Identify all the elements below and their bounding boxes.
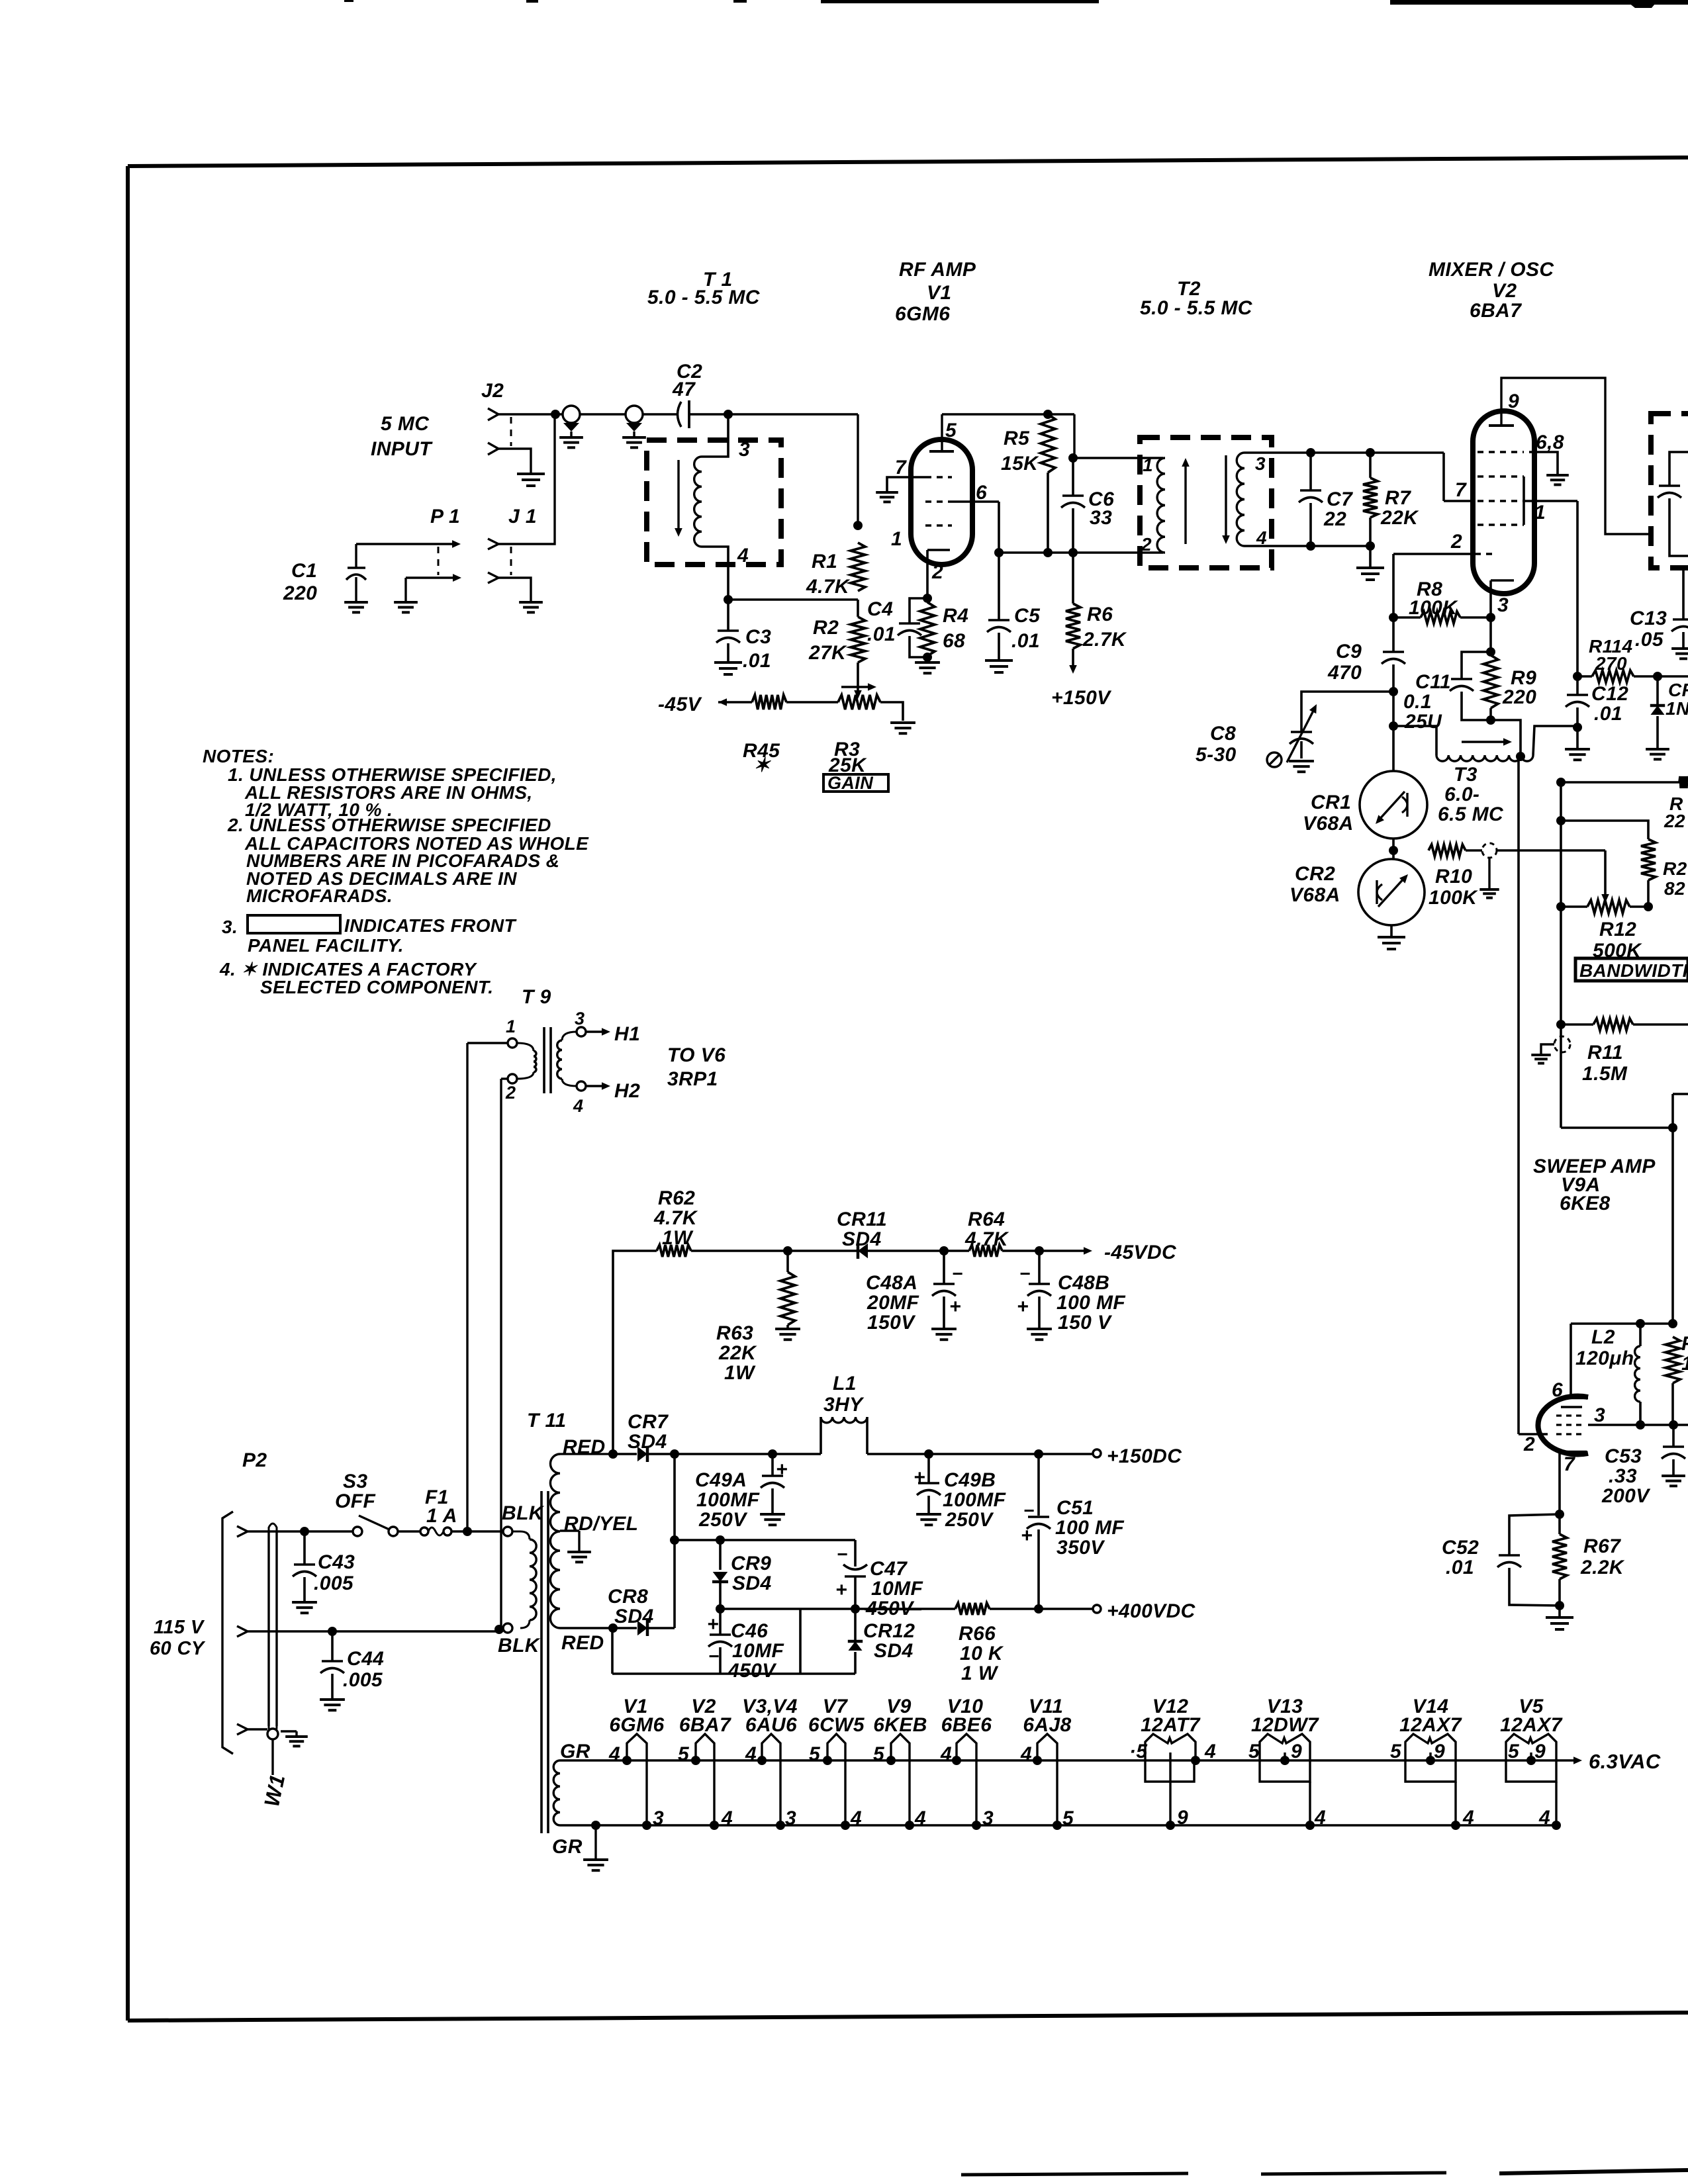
node rect branch	[670, 1535, 679, 1545]
pin 4 label V1	[608, 1743, 620, 1765]
svg-text:V68A: V68A	[1289, 884, 1340, 906]
svg-text:12DW7: 12DW7	[1251, 1714, 1319, 1736]
svg-text:5: 5	[809, 1743, 821, 1765]
svg-text:R2: R2	[1663, 858, 1687, 879]
fuse F1	[420, 1486, 457, 1535]
resistor R7	[1363, 453, 1419, 546]
svg-text:1W: 1W	[724, 1362, 756, 1384]
svg-text:22: 22	[1323, 508, 1346, 530]
node CR9 top	[716, 1535, 725, 1545]
wire V1 pin6	[952, 502, 999, 620]
node CR9 bottom	[716, 1604, 725, 1614]
svg-text:C1: C1	[291, 560, 317, 582]
varicap CR2	[1289, 838, 1425, 925]
arrow T3 tuning	[1462, 738, 1512, 746]
label TO V6 3RP1	[667, 1044, 726, 1090]
svg-text:12AX7: 12AX7	[1500, 1714, 1563, 1736]
pin 6 label V9A	[1552, 1379, 1563, 1401]
svg-text:5: 5	[1390, 1741, 1402, 1762]
ground cord shield	[281, 1731, 308, 1746]
resistor R67	[1552, 1514, 1625, 1606]
svg-text:P2: P2	[242, 1449, 267, 1471]
capacitor C51	[1021, 1454, 1124, 1609]
svg-text:4: 4	[745, 1743, 757, 1765]
node heater tap	[463, 1527, 472, 1536]
wire L2 top rail	[1571, 1324, 1673, 1398]
pin 1 label T9	[506, 1017, 516, 1036]
svg-text:.005: .005	[314, 1572, 354, 1594]
svg-text:12AT7: 12AT7	[1141, 1714, 1201, 1736]
svg-text:6AJ8: 6AJ8	[1023, 1714, 1071, 1736]
svg-text:7: 7	[895, 457, 907, 478]
transformer T11 label	[527, 1410, 566, 1432]
node C9 bottom	[1389, 687, 1398, 696]
transformer T11 heater winding	[553, 1760, 560, 1825]
pin 6,8 label V2	[1536, 432, 1564, 453]
node R7 top	[1366, 448, 1375, 457]
node pin3 C53	[1669, 1420, 1678, 1430]
node input junction	[551, 410, 560, 419]
svg-text:R64: R64	[968, 1208, 1005, 1230]
tube V1 grids	[925, 477, 952, 525]
tube V11 heater	[1033, 1734, 1062, 1830]
svg-text:1: 1	[506, 1017, 516, 1036]
svg-text:NOTES:: NOTES:	[203, 746, 274, 766]
capacitor C52	[1442, 1514, 1560, 1606]
svg-text:4: 4	[1462, 1807, 1474, 1829]
transformer T2 arrows	[1182, 455, 1230, 544]
svg-text:CR1: CR1	[1311, 792, 1351, 813]
svg-text:+: +	[835, 1579, 847, 1601]
svg-text:2: 2	[1450, 531, 1462, 553]
transformer T1 winding	[694, 414, 728, 600]
wire cathode V2 down	[1489, 617, 1492, 652]
pin 2 label V2	[1450, 531, 1462, 553]
svg-text:3.: 3.	[222, 917, 238, 937]
svg-text:CR8: CR8	[608, 1586, 648, 1608]
svg-text:+: +	[707, 1614, 719, 1635]
node C43 top	[300, 1527, 309, 1536]
wire R45 to R3	[786, 701, 838, 704]
label MIXER/OSC V2 6BA7	[1429, 259, 1554, 322]
wire V9A pin3 rail	[1588, 1424, 1688, 1426]
switch S3	[335, 1471, 398, 1536]
svg-text:20MF: 20MF	[867, 1292, 919, 1314]
svg-text:CR9: CR9	[731, 1553, 771, 1574]
node C12 bottom	[1573, 723, 1582, 732]
transformer T2 shield box	[1140, 437, 1272, 568]
connector J2	[481, 380, 511, 455]
pin 4 label V3,V4	[745, 1743, 757, 1765]
svg-text:5: 5	[1248, 1741, 1260, 1762]
svg-text:C52: C52	[1442, 1537, 1479, 1559]
pin 7 label V1	[895, 457, 907, 478]
wire AC line 3	[248, 1728, 267, 1730]
svg-text:MIXER / OSC: MIXER / OSC	[1429, 259, 1554, 281]
node R68 top	[1668, 1319, 1677, 1328]
node R12 left	[1556, 902, 1566, 911]
capacitor C53	[1601, 1425, 1685, 1507]
resistor R21 cut	[1641, 839, 1687, 907]
wire V2 pin2	[1393, 554, 1475, 617]
svg-text:−: −	[837, 1544, 848, 1565]
connector P1 arrows	[356, 540, 461, 601]
pin 4 label V9	[914, 1807, 926, 1829]
label GR top	[560, 1741, 590, 1762]
capacitor C2	[672, 361, 702, 428]
pin 5 label V1	[945, 420, 957, 441]
svg-text:J2: J2	[481, 380, 504, 402]
notes text 1-2	[203, 746, 589, 906]
node T3 tap	[1516, 752, 1525, 761]
svg-text:RF AMP: RF AMP	[899, 259, 976, 281]
svg-text:.33: .33	[1609, 1465, 1637, 1487]
svg-text:100 MF: 100 MF	[1056, 1292, 1125, 1314]
svg-text:100MF: 100MF	[696, 1489, 760, 1511]
wire H1	[586, 1023, 640, 1045]
terminal BLK top	[502, 1502, 545, 1536]
svg-text:SD4: SD4	[874, 1640, 914, 1662]
svg-text:+: +	[776, 1459, 788, 1480]
wire main input line	[498, 414, 858, 525]
svg-text:+150DC: +150DC	[1107, 1445, 1182, 1467]
svg-text:SD4: SD4	[842, 1228, 882, 1250]
label 5 MC INPUT	[371, 413, 433, 460]
svg-text:9: 9	[1177, 1807, 1188, 1829]
svg-text:C3: C3	[745, 626, 771, 648]
svg-text:100 MF: 100 MF	[1055, 1517, 1124, 1539]
svg-text:6BA7: 6BA7	[1470, 300, 1522, 322]
ground V9A cathode	[1546, 1606, 1573, 1629]
wire R9 to T3 tap	[1491, 720, 1521, 755]
diode CR7	[613, 1411, 675, 1462]
wire rect bottom loop	[612, 1628, 855, 1674]
node pin3 L2	[1636, 1420, 1645, 1430]
node C48B top	[1035, 1246, 1044, 1255]
svg-text:2. UNLESS OTHERWISE SPECIFIED: 2. UNLESS OTHERWISE SPECIFIED	[227, 815, 551, 835]
svg-text:C49A: C49A	[695, 1469, 747, 1491]
transformer T9 core	[544, 1027, 551, 1093]
pin 9 label V12	[1177, 1807, 1188, 1829]
svg-text:C11: C11	[1415, 671, 1451, 693]
resistor R62	[653, 1187, 788, 1257]
capacitor C44	[320, 1631, 384, 1698]
resistor R13 cut	[1664, 776, 1688, 831]
svg-text:9: 9	[1291, 1741, 1302, 1762]
svg-text:INPUT: INPUT	[371, 438, 433, 460]
svg-text:·5: ·5	[1129, 1741, 1148, 1762]
svg-text:C47: C47	[870, 1558, 908, 1580]
node R4 bottom	[923, 653, 932, 662]
svg-text:.01: .01	[867, 623, 896, 645]
svg-text:1N: 1N	[1665, 698, 1688, 719]
feedthrough R10	[1479, 843, 1499, 898]
node R7 bottom	[1366, 541, 1375, 551]
pin 3 label V1	[653, 1807, 664, 1829]
node C51 top	[1034, 1449, 1043, 1459]
svg-text:4: 4	[914, 1807, 926, 1829]
svg-text:3: 3	[785, 1807, 796, 1829]
svg-text:470: 470	[1327, 662, 1362, 684]
ground C49B	[916, 1514, 941, 1525]
node L2 top	[1636, 1319, 1645, 1328]
svg-text:9: 9	[1434, 1741, 1445, 1762]
svg-text:4.7K: 4.7K	[653, 1207, 698, 1229]
oscillator tank capacitor	[1658, 452, 1688, 556]
svg-text:1: 1	[1143, 455, 1153, 475]
svg-text:+400VDC: +400VDC	[1107, 1600, 1196, 1622]
svg-text:GR: GR	[560, 1741, 590, 1762]
svg-text:+: +	[1017, 1296, 1029, 1318]
capacitor C6	[1061, 458, 1114, 553]
svg-text:6AU6: 6AU6	[745, 1714, 797, 1736]
resistor R63	[716, 1251, 795, 1384]
svg-text:4: 4	[608, 1743, 620, 1765]
svg-text:220: 220	[1502, 686, 1536, 708]
svg-text:R62: R62	[658, 1187, 695, 1209]
pin 4 label V12	[1204, 1741, 1216, 1762]
svg-text:C13: C13	[1630, 608, 1667, 629]
svg-text:1 W: 1 W	[961, 1662, 999, 1684]
node R8 right	[1486, 613, 1495, 622]
capacitor C49B	[914, 1454, 1006, 1531]
node T9 line2	[494, 1625, 504, 1634]
svg-text:10MF: 10MF	[732, 1640, 784, 1662]
capacitor C46	[707, 1609, 784, 1682]
wire R21 feed	[1561, 821, 1648, 839]
resistor R6	[1066, 553, 1127, 674]
diode CR9	[712, 1540, 772, 1609]
wire heater top	[560, 1759, 1573, 1762]
node pin6 rail junction	[994, 548, 1004, 557]
resistor R114	[1577, 636, 1688, 682]
inductor L1	[675, 1373, 1094, 1454]
node R11 left	[1556, 1020, 1566, 1029]
label V13 12DW7	[1251, 1696, 1319, 1736]
pin 4 label V5	[1538, 1807, 1550, 1829]
svg-text:6.3VAC: 6.3VAC	[1589, 1750, 1661, 1773]
pin 2 label V1	[931, 561, 943, 583]
tube V9 heater	[886, 1734, 914, 1830]
wire T9 pin1 down	[467, 1043, 508, 1531]
wire C8 feed	[1301, 692, 1393, 732]
transformer T11 core	[541, 1491, 548, 1833]
tube V2 grids	[1475, 452, 1524, 554]
svg-text:+150V: +150V	[1051, 687, 1112, 709]
svg-text:R66: R66	[959, 1623, 996, 1645]
pin 3 label V2	[1497, 594, 1509, 616]
diode CR3	[1650, 676, 1688, 748]
pin 5 label V9	[873, 1743, 885, 1765]
svg-text:1.: 1.	[1681, 1353, 1688, 1375]
wire heater bottom	[560, 1824, 1556, 1827]
pin 3 label T9	[575, 1009, 585, 1028]
label J1	[508, 506, 537, 527]
pin 3 label T1	[739, 439, 750, 461]
svg-text:.05: .05	[1635, 629, 1664, 651]
pin 3 label V10	[982, 1807, 994, 1829]
ground C1	[344, 602, 368, 612]
inductor L2	[1575, 1324, 1640, 1425]
svg-text:C49B: C49B	[944, 1469, 996, 1491]
ground CR3	[1646, 749, 1669, 759]
svg-text:.01: .01	[1011, 630, 1040, 652]
label T2	[1140, 278, 1253, 319]
svg-text:10 K: 10 K	[960, 1643, 1004, 1664]
pin 5 label V11	[1062, 1807, 1074, 1829]
ground C49A	[760, 1514, 785, 1525]
tube V9A cathode	[1558, 1452, 1587, 1514]
svg-text:BLK: BLK	[498, 1635, 541, 1657]
diode CR11	[788, 1208, 944, 1259]
pin 2 label T9	[505, 1083, 516, 1103]
svg-text:CR7: CR7	[628, 1411, 669, 1433]
svg-text:150V: 150V	[867, 1312, 916, 1334]
capacitor C9	[1327, 617, 1405, 692]
svg-text:+: +	[949, 1296, 961, 1318]
svg-text:7: 7	[1564, 1453, 1575, 1475]
label V3,V4 6AU6	[742, 1696, 798, 1736]
wire -45VDC out	[1039, 1242, 1177, 1263]
svg-text:6.0-: 6.0-	[1444, 784, 1479, 805]
svg-text:3: 3	[982, 1807, 994, 1829]
capacitor C47	[835, 1544, 923, 1619]
svg-text:C51: C51	[1056, 1497, 1094, 1519]
svg-text:H1: H1	[614, 1023, 640, 1045]
tube V1 heater	[622, 1734, 651, 1830]
label -45V	[658, 694, 703, 715]
wire V2 pins6,8 to ground	[1529, 452, 1558, 474]
svg-text:350V: 350V	[1056, 1537, 1105, 1559]
pin 5 label V2	[678, 1743, 690, 1765]
svg-text:100K: 100K	[1409, 597, 1458, 619]
svg-text:82: 82	[1664, 878, 1685, 899]
svg-text:✶: ✶	[753, 754, 771, 776]
node C49A top	[768, 1449, 777, 1459]
ground V1 pin7	[876, 492, 898, 502]
wire AC line 2	[248, 1628, 503, 1631]
node R4 top	[923, 594, 932, 603]
svg-text:27K: 27K	[808, 642, 847, 664]
svg-text:270: 270	[1595, 653, 1627, 674]
node R8 left	[1389, 613, 1398, 622]
node R67 bottom	[1555, 1601, 1564, 1610]
pin 4 label V7	[850, 1807, 862, 1829]
svg-text:L2: L2	[1591, 1326, 1615, 1348]
tube V2 heater	[691, 1734, 719, 1830]
svg-text:R2: R2	[813, 617, 839, 639]
tap RD/YEL	[560, 1513, 638, 1551]
svg-text:15K: 15K	[1001, 453, 1039, 475]
wire J1 pin1	[498, 414, 555, 544]
feedthrough R11	[1531, 1036, 1570, 1064]
label T3	[1438, 764, 1504, 825]
svg-text:47: 47	[672, 379, 696, 400]
svg-text:BANDWIDTH: BANDWIDTH	[1579, 960, 1688, 981]
ground GR	[583, 1825, 608, 1870]
svg-text:C48B: C48B	[1058, 1272, 1109, 1294]
svg-text:120μh: 120μh	[1575, 1347, 1634, 1369]
capacitor C1	[283, 560, 366, 604]
pin 7 label V9A	[1564, 1453, 1575, 1475]
pin 4 label V13	[1314, 1807, 1326, 1829]
ground C53	[1662, 1476, 1685, 1486]
svg-text:R4: R4	[943, 605, 968, 627]
tube V3,V4 heater	[757, 1734, 785, 1830]
svg-text:6,8: 6,8	[1536, 432, 1564, 453]
svg-text:P 1: P 1	[430, 506, 460, 527]
transformer T9 secondary	[557, 1027, 586, 1091]
svg-text:3: 3	[1255, 453, 1266, 474]
svg-text:6KE8: 6KE8	[1560, 1193, 1611, 1214]
transformer T2 primary	[1141, 455, 1165, 555]
svg-text:6: 6	[1552, 1379, 1563, 1401]
svg-text:6: 6	[976, 482, 987, 504]
node R9 bottom	[1486, 715, 1495, 725]
wire H2	[586, 1080, 640, 1102]
svg-text:.005: .005	[343, 1669, 383, 1691]
svg-text:RED: RED	[561, 1632, 604, 1654]
power cord W1	[259, 1524, 289, 1809]
node C51 bottom	[1034, 1604, 1043, 1614]
svg-text:-45VDC: -45VDC	[1104, 1242, 1177, 1263]
svg-text:5.0 - 5.5 MC: 5.0 - 5.5 MC	[647, 287, 761, 308]
svg-text:7: 7	[1455, 479, 1467, 501]
ground P1 pin2	[394, 602, 418, 612]
resistor R8	[1393, 578, 1491, 623]
resistor R9	[1483, 655, 1536, 720]
svg-text:6.5 MC: 6.5 MC	[1438, 803, 1504, 825]
svg-text:R5: R5	[1004, 428, 1030, 449]
resistor R2	[808, 600, 865, 664]
svg-text:5: 5	[1508, 1741, 1520, 1762]
wire R13 feed	[1561, 781, 1679, 784]
label V14 12AX7	[1399, 1696, 1462, 1736]
node T2 pin1 feed	[1068, 453, 1078, 463]
svg-text:V1: V1	[927, 282, 952, 304]
svg-text:68: 68	[943, 630, 965, 652]
wire J1 pin2 ground	[498, 578, 531, 601]
svg-text:3HY: 3HY	[823, 1394, 865, 1416]
svg-text:3: 3	[1497, 594, 1509, 616]
pin 5 label V12	[1129, 1741, 1148, 1762]
svg-text:250V: 250V	[698, 1509, 748, 1531]
ground C3	[714, 662, 742, 674]
arrow T1 tuning	[675, 460, 682, 537]
svg-text:+: +	[914, 1467, 925, 1488]
svg-text:6CW5: 6CW5	[808, 1714, 865, 1736]
svg-text:6GM6: 6GM6	[609, 1714, 664, 1736]
resistor R68 cut	[1665, 1333, 1688, 1425]
tube V5 heater	[1506, 1734, 1561, 1830]
node R114 left	[1573, 672, 1582, 681]
pin 5 label V5	[1508, 1741, 1520, 1762]
ground J2 shield	[517, 474, 545, 486]
svg-text:R7: R7	[1385, 487, 1411, 509]
terminal +150DC	[1093, 1445, 1182, 1467]
pin 3 label V3,V4	[785, 1807, 796, 1829]
node R12 right	[1644, 902, 1653, 911]
arrow 6.3VAC	[1573, 1750, 1661, 1773]
pin 1 label V2	[1534, 502, 1546, 523]
svg-text:−: −	[708, 1646, 720, 1666]
pin 1 label V1	[891, 528, 902, 550]
svg-text:T 11: T 11	[527, 1410, 566, 1432]
feedthrough capacitor FT1	[559, 406, 583, 447]
ground RD/YEL	[567, 1552, 591, 1562]
svg-text:22K: 22K	[718, 1342, 757, 1364]
resistor R1	[806, 543, 865, 598]
